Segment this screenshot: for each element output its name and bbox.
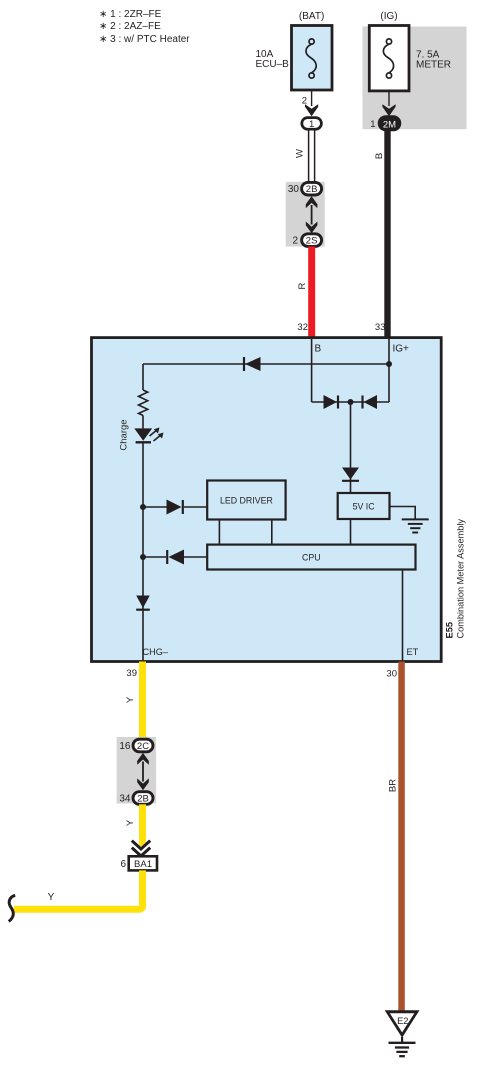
- svg-text:W: W: [295, 149, 306, 158]
- svg-text:32: 32: [297, 322, 308, 333]
- svg-text:2B: 2B: [306, 184, 318, 195]
- svg-text:∗ 1 : 2ZR–FE: ∗ 1 : 2ZR–FE: [99, 9, 162, 20]
- svg-text:30: 30: [288, 184, 300, 195]
- svg-text:Charge: Charge: [119, 419, 130, 450]
- svg-text:B: B: [315, 344, 322, 355]
- svg-text:(BAT): (BAT): [299, 11, 324, 22]
- svg-text:1: 1: [370, 119, 375, 130]
- svg-text:E2: E2: [397, 1016, 408, 1026]
- svg-text:∗ 3 : w/ PTC Heater: ∗ 3 : w/ PTC Heater: [99, 34, 190, 45]
- svg-text:5V IC: 5V IC: [353, 502, 376, 512]
- svg-text:Y: Y: [125, 696, 136, 703]
- svg-text:34: 34: [119, 794, 131, 805]
- svg-text:Y: Y: [48, 892, 55, 903]
- svg-text:E55: E55: [445, 622, 455, 639]
- svg-text:2C: 2C: [137, 741, 149, 752]
- svg-text:39: 39: [126, 668, 137, 679]
- svg-text:CPU: CPU: [302, 553, 321, 563]
- svg-text:2M: 2M: [383, 119, 396, 130]
- svg-text:BA1: BA1: [134, 859, 152, 870]
- svg-text:2: 2: [302, 96, 307, 107]
- svg-text:METER: METER: [416, 60, 451, 71]
- svg-text:Y: Y: [125, 819, 136, 826]
- svg-text:6: 6: [120, 859, 126, 870]
- svg-text:ECU–B: ECU–B: [256, 59, 290, 70]
- svg-text:33: 33: [375, 322, 386, 333]
- svg-text:LED DRIVER: LED DRIVER: [220, 495, 273, 505]
- svg-text:BR: BR: [388, 779, 399, 792]
- svg-text:1: 1: [309, 119, 314, 130]
- svg-text:2B: 2B: [137, 794, 149, 805]
- svg-text:(IG): (IG): [380, 11, 397, 22]
- svg-text:B: B: [374, 153, 385, 159]
- svg-text:2S: 2S: [306, 236, 318, 247]
- svg-text:16: 16: [119, 741, 131, 752]
- svg-text:CHG–: CHG–: [143, 647, 169, 657]
- svg-text:IG+: IG+: [393, 344, 410, 355]
- svg-text:30: 30: [386, 669, 397, 680]
- svg-text:∗ 2 : 2AZ–FE: ∗ 2 : 2AZ–FE: [99, 21, 161, 32]
- svg-text:2: 2: [292, 236, 298, 247]
- svg-text:Combination Meter Assembly: Combination Meter Assembly: [456, 519, 466, 639]
- svg-text:R: R: [297, 282, 308, 289]
- svg-text:ET: ET: [407, 647, 419, 657]
